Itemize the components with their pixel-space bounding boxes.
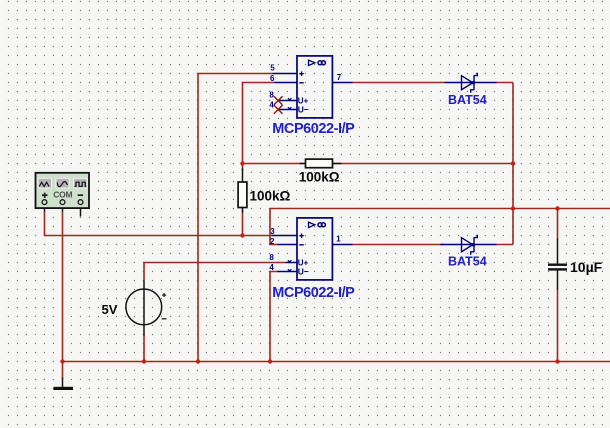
svg-text:MCP6022-I/P: MCP6022-I/P <box>272 121 355 137</box>
svg-text:5: 5 <box>270 64 275 73</box>
svg-text:COM: COM <box>53 189 72 199</box>
svg-text:8: 8 <box>269 90 274 99</box>
svg-text:1: 1 <box>336 235 341 244</box>
svg-text:BAT54: BAT54 <box>448 254 487 268</box>
svg-text:8: 8 <box>269 253 274 262</box>
svg-text:2: 2 <box>270 237 275 246</box>
svg-text:6: 6 <box>270 74 275 83</box>
svg-text:7: 7 <box>337 73 342 82</box>
svg-text:100kΩ: 100kΩ <box>299 170 340 185</box>
svg-text:U−: U− <box>298 267 309 277</box>
svg-text:BAT54: BAT54 <box>448 93 487 107</box>
svg-text:4: 4 <box>269 263 274 272</box>
svg-text:U−: U− <box>298 105 309 115</box>
svg-text:MCP6022-I/P: MCP6022-I/P <box>272 285 355 301</box>
svg-text:3: 3 <box>270 227 275 236</box>
svg-text:5V: 5V <box>102 302 118 317</box>
svg-text:10µF: 10µF <box>570 259 603 275</box>
svg-text:100kΩ: 100kΩ <box>250 188 291 203</box>
svg-text:4: 4 <box>269 101 274 110</box>
